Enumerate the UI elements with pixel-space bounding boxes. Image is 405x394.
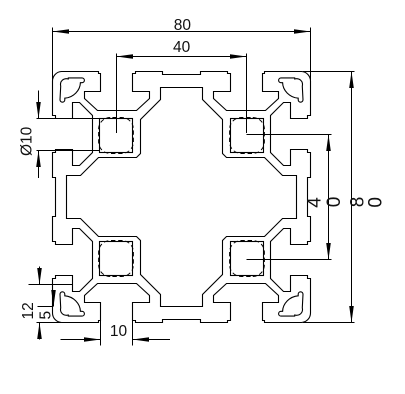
dimension 40 right: extension + dimension lines bbox=[247, 135, 332, 260]
svg-text:4: 4 bbox=[305, 197, 326, 208]
dimension 12 left bottom: extension + dimension lines bbox=[29, 267, 73, 340]
dimension 5: extension + dimension line bbox=[38, 293, 54, 307]
arrowheads dim 80 right bbox=[349, 72, 354, 89]
dimension 10 bottom: extension + dimension lines bbox=[61, 319, 171, 346]
arrowheads phi10 (outside pointing in) bbox=[36, 102, 41, 119]
dimension phi10 left: dimension line bbox=[38, 91, 40, 179]
arrowheads dim 40 right bbox=[326, 135, 331, 152]
arrowhead dim 5 bbox=[51, 290, 56, 307]
svg-text:40: 40 bbox=[173, 39, 191, 56]
dimension 80 top: extension + dimension lines bbox=[53, 28, 311, 117]
svg-text:5: 5 bbox=[38, 311, 55, 320]
tangent lines of top-left core hole bbox=[37, 119, 100, 151]
slot centre extension lines into bosses bbox=[117, 54, 247, 134]
svg-text:Ø10: Ø10 bbox=[19, 126, 36, 156]
svg-text:0: 0 bbox=[324, 197, 345, 208]
label 80 right bbox=[347, 197, 386, 208]
svg-text:12: 12 bbox=[20, 302, 37, 319]
label 40 right bbox=[305, 197, 346, 208]
svg-text:0: 0 bbox=[366, 197, 387, 208]
dimension 80 right: extension + dimension lines bbox=[303, 72, 355, 323]
svg-text:10: 10 bbox=[110, 323, 128, 340]
arrowheads dim 10 (outside pointing in) bbox=[84, 337, 101, 342]
dimension 40 top: dimension line bbox=[117, 56, 247, 58]
arrowheads dim 12 (outside pointing in) bbox=[37, 268, 42, 285]
arrowheads dim 40 top bbox=[117, 54, 134, 59]
arrowheads dim 80 top bbox=[53, 29, 70, 34]
svg-text:80: 80 bbox=[174, 17, 192, 34]
